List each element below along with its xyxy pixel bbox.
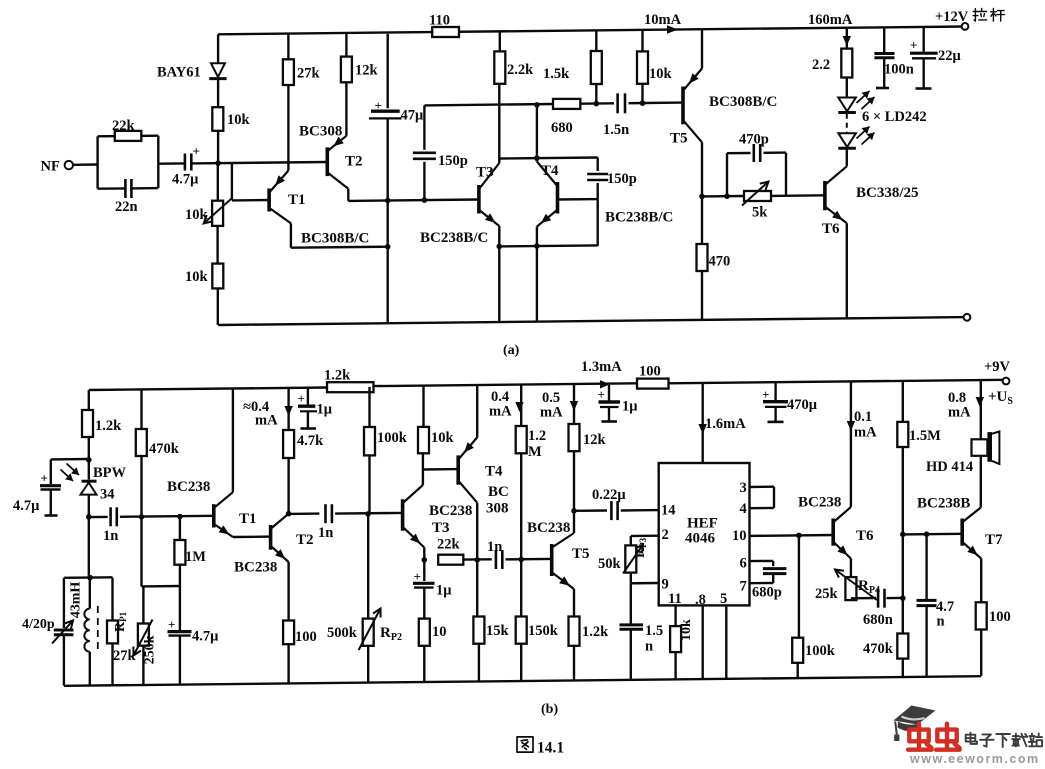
svg-text:680n: 680n — [863, 612, 893, 628]
svg-text:1.3mA: 1.3mA — [581, 359, 622, 375]
resistor 10 — [419, 619, 430, 646]
transistor T3b BC238 npn — [401, 499, 405, 530]
resistor 100k — [364, 427, 375, 455]
capacitor 22n — [124, 179, 127, 198]
resistor 22k horizontal — [438, 555, 463, 565]
svg-text:14.1: 14.1 — [537, 740, 564, 757]
svg-text:1.5n: 1.5n — [603, 122, 629, 138]
wire 100k branch down — [798, 535, 800, 637]
svg-text:250k: 250k — [143, 635, 158, 664]
input network box 22k/22n loop — [96, 136, 98, 188]
svg-text:10: 10 — [432, 624, 447, 640]
wire T2 collector down — [347, 189, 349, 201]
junction T2b collector node — [286, 511, 292, 517]
capacitor 1u T3 emitter — [413, 582, 435, 585]
junction 22k row T4 — [474, 557, 480, 563]
diode BAY61 — [211, 63, 225, 77]
wire rail to 12k with 0.5mA arrow — [573, 385, 575, 424]
svg-text:27k: 27k — [113, 648, 137, 664]
capacitor 680n — [877, 589, 880, 608]
junction 1n wire — [86, 514, 92, 520]
junction 100k b2 — [796, 533, 802, 539]
svg-text:1.5k: 1.5k — [543, 66, 570, 82]
svg-text:www.eeworm.com: www.eeworm.com — [909, 752, 1040, 764]
svg-text:150p: 150p — [438, 153, 468, 169]
junction 22k row start — [422, 557, 428, 563]
trimmer capacitor 4/20p — [54, 629, 74, 632]
wire emitter coupling row — [499, 245, 597, 246]
wire T1 collector down — [290, 223, 292, 247]
resistor 10k b — [418, 427, 429, 453]
wire 4.7u to T2 base — [191, 162, 327, 163]
junction T7 base — [900, 532, 906, 538]
svg-text:+: + — [414, 569, 421, 584]
wire rail to 1.5M — [902, 381, 904, 422]
svg-text:1n: 1n — [318, 525, 333, 541]
svg-text:110: 110 — [429, 13, 450, 29]
svg-text:680: 680 — [551, 120, 573, 136]
resistor 1.2k left — [82, 410, 93, 437]
wire 27k to T1 emitter — [287, 85, 289, 171]
svg-text:1.2k: 1.2k — [582, 624, 609, 640]
transistor T1b BC238 npn — [212, 504, 216, 527]
svg-text:T1: T1 — [288, 192, 306, 208]
wire T7 base node down — [902, 534, 904, 598]
svg-text:5k: 5k — [752, 205, 768, 221]
wire rail to 4.7k with 0.4mA arrow — [287, 388, 289, 430]
svg-text:22k: 22k — [437, 537, 461, 553]
svg-text:mA: mA — [489, 404, 512, 420]
wire down to 470k b2 — [902, 598, 904, 633]
svg-text:1μ: 1μ — [317, 402, 333, 418]
transistor T5 BC308 pnp — [681, 87, 685, 125]
wire 500k to bottom rail — [367, 646, 369, 683]
wire cross link to 1M bottom — [142, 585, 180, 588]
wire BAY61 to 10k — [217, 79, 219, 108]
wire 100k to junction — [368, 455, 370, 514]
svg-text:100: 100 — [639, 364, 661, 380]
wire rail down with 160mA arrow — [846, 28, 848, 49]
terminal +12V — [962, 23, 969, 30]
wire 100 T7 to bottom rail — [980, 630, 982, 677]
wire 4.7k to T2b collector — [287, 458, 289, 514]
resistor 4.7k — [283, 430, 294, 458]
wire T2b collector to 1n2 — [289, 512, 320, 515]
junction 680n node — [900, 595, 906, 601]
svg-text:T2: T2 — [345, 154, 363, 170]
wire LED2 to T6 collector — [846, 148, 848, 166]
svg-text:1.2: 1.2 — [528, 428, 546, 444]
potentiometer 50k Rp3 — [625, 545, 636, 572]
svg-text:100: 100 — [295, 629, 317, 645]
resistor 100 T7 — [976, 602, 987, 629]
svg-text:mA: mA — [948, 405, 971, 421]
wire 680p to pin7 — [772, 574, 774, 584]
wire rail to IC top 1.6mA — [702, 383, 704, 463]
svg-text:1n: 1n — [103, 528, 118, 544]
wire T1b emitter to T2b base — [233, 535, 271, 538]
wire 47u down to bottom rail — [387, 118, 389, 323]
wire 470k node down — [140, 517, 142, 587]
wire T5 collector to 470 — [701, 196, 703, 244]
svg-text:M: M — [528, 444, 542, 460]
wire 1M branch — [179, 517, 181, 541]
svg-text:100k: 100k — [377, 430, 408, 446]
svg-text:100: 100 — [989, 609, 1011, 625]
svg-text:4046: 4046 — [685, 531, 716, 547]
capacitor 150p first — [413, 152, 436, 155]
capacitor 0.22u — [610, 501, 613, 520]
capacitor 4.7u second — [168, 630, 192, 633]
wire T3 emitter down — [498, 226, 500, 322]
wire rail to 1.5k — [595, 30, 597, 51]
svg-text:+: + — [298, 391, 305, 406]
watermark site name text — [966, 733, 977, 744]
svg-text:4: 4 — [740, 501, 747, 517]
wire pin6 to 680p — [750, 560, 774, 563]
resistor 10k third — [637, 51, 648, 83]
junction T5 collector node — [699, 194, 705, 200]
junction 4.7n — [924, 531, 930, 537]
junction NF/BAY61 line — [215, 160, 221, 166]
svg-text:34: 34 — [100, 487, 115, 503]
wire NF node down to T1 base — [231, 163, 233, 200]
svg-text:T1: T1 — [239, 511, 257, 527]
wire 680/1.5n row — [424, 104, 553, 105]
wire 25k to 680n — [851, 597, 876, 600]
svg-text:0.22μ: 0.22μ — [592, 487, 626, 503]
transistor T1 BC308 pnp — [267, 189, 271, 212]
svg-text:BC238B/C: BC238B/C — [605, 210, 673, 226]
wire 4.7n to bottom rail — [925, 606, 927, 677]
capacitor 4.7n — [917, 599, 937, 602]
svg-text:mA: mA — [854, 425, 877, 441]
circuit (b) top +9V rail left segment — [89, 388, 327, 391]
wire rail to 10k b — [422, 386, 424, 427]
svg-text:150k: 150k — [528, 623, 559, 639]
wire rail to 27k — [287, 34, 289, 60]
svg-text:(b): (b) — [541, 702, 558, 717]
circuit (a) bottom rail — [218, 317, 967, 325]
resistor 2.2k — [494, 51, 505, 83]
svg-text:1μ: 1μ — [436, 583, 452, 599]
svg-text:(a): (a) — [503, 343, 520, 358]
svg-text:150p: 150p — [607, 171, 637, 187]
resistor 10k rotated label — [670, 626, 681, 652]
current arrow 1.3mA — [600, 380, 610, 388]
photodiode BPW34 — [82, 480, 97, 483]
junction 10k — [640, 100, 646, 106]
wire 10 to bottom rail — [423, 646, 425, 682]
svg-text:160mA: 160mA — [808, 12, 853, 28]
wire 470p loop left — [726, 153, 728, 196]
resistor 10k (top) — [212, 107, 223, 131]
wire node to T4b base — [423, 468, 458, 471]
wire pin10 to T6b base — [750, 534, 834, 537]
resistor Rp1 27k — [107, 621, 118, 644]
wire 680n to 470k line — [887, 597, 903, 600]
svg-text:+: + — [375, 98, 382, 113]
svg-text:2: 2 — [662, 527, 669, 543]
potentiometer 5k horizontal — [744, 191, 771, 201]
svg-text:BC238: BC238 — [527, 520, 570, 536]
wire 1.5k down — [595, 84, 597, 104]
capacitor 1u rail stub 2 — [608, 384, 610, 401]
wire T1 collector row — [291, 247, 388, 248]
watermark red text chongchong — [908, 724, 932, 750]
wire pin9 node to 1.5n — [630, 583, 632, 623]
wire junction to 500k pot — [367, 514, 369, 619]
capacitor 1n second — [324, 504, 327, 523]
svg-text:T5: T5 — [572, 546, 590, 562]
wire 680 to 1.5n — [580, 102, 614, 105]
resistor 110 on rail — [432, 27, 459, 37]
svg-text:308: 308 — [486, 501, 509, 517]
svg-text:11: 11 — [668, 591, 682, 607]
wire T2b emitter down — [287, 562, 289, 621]
resistor 470k b2 — [897, 634, 908, 659]
junction 470k line — [139, 514, 145, 520]
svg-text:1.2k: 1.2k — [324, 368, 351, 384]
wire rail to 22u — [923, 27, 925, 52]
wire T4 line to 15k — [476, 560, 478, 617]
terminal bottom right (a) — [964, 314, 971, 321]
svg-text:T4: T4 — [485, 464, 503, 480]
svg-text:0.1: 0.1 — [854, 409, 872, 425]
rail segment to +9V terminal — [669, 380, 1007, 384]
svg-text:T5: T5 — [670, 131, 688, 147]
wire 50k to pin9 row — [630, 573, 632, 584]
transistor T3 npn — [477, 185, 481, 214]
svg-text:2.2k: 2.2k — [507, 62, 534, 78]
junction T3 emitter row — [497, 244, 503, 250]
svg-text:4.7μ: 4.7μ — [192, 629, 219, 645]
svg-text:NF: NF — [41, 159, 60, 175]
circuit (a) top +12V rail — [218, 27, 965, 35]
wire T4 collector up to 680 row — [536, 104, 538, 161]
transistor T4 npn mirrored — [556, 182, 560, 214]
wire 150p-2 branch — [597, 157, 599, 171]
svg-text:22μ: 22μ — [938, 48, 962, 64]
rail segment to 100 resistor — [374, 383, 638, 386]
wire speaker to T7 collector — [980, 456, 982, 508]
svg-text:T6: T6 — [856, 528, 874, 544]
wire T2 collector to T3 base — [348, 200, 479, 201]
svg-text:1.5: 1.5 — [645, 623, 663, 639]
svg-text:1M: 1M — [185, 549, 206, 565]
wire T7 base wire — [903, 533, 962, 536]
svg-text:.8: .8 — [695, 592, 706, 608]
wire rail to 100k — [368, 387, 370, 427]
label 拉杆 (chinese) — [973, 8, 987, 21]
svg-text:BC338/25: BC338/25 — [856, 185, 919, 201]
resistor 100 on rail — [637, 379, 669, 389]
capacitor 1n first — [109, 507, 112, 526]
svg-text:14: 14 — [661, 503, 676, 519]
resistor 100 T2b — [283, 621, 294, 645]
wire tank right leg — [111, 578, 113, 621]
svg-text:4/20p: 4/20p — [22, 617, 55, 632]
capacitor 680p — [763, 567, 787, 570]
transistor T6 BC338 npn — [823, 181, 827, 210]
transistor T2 BC308 pnp — [325, 147, 329, 176]
wire photodiode to 1n node — [88, 495, 90, 578]
potentiometer 250k — [142, 586, 144, 623]
wire 1u to 10 resistor — [423, 588, 425, 619]
wire T5 emitter to rail — [701, 29, 703, 69]
junction 4.7u branch — [86, 457, 92, 463]
resistor 470 — [697, 244, 708, 271]
resistor 150k — [516, 617, 527, 644]
resistor 10k (bottom) — [212, 264, 223, 289]
resistor 1.2k on rail — [327, 382, 374, 392]
svg-text:4.7μ: 4.7μ — [13, 498, 40, 514]
wire 150p to base row — [423, 162, 425, 200]
wire T3/T4 collector link — [499, 158, 597, 159]
wire 10k to T3b collector node — [422, 453, 424, 485]
wire 100 to bottom rail — [287, 644, 289, 683]
wire 470k to 1n wire — [140, 456, 142, 517]
wire 1.2k to photodiode — [88, 437, 90, 480]
svg-text:T3: T3 — [476, 165, 494, 181]
svg-text:mA: mA — [540, 405, 563, 421]
LED D1 LD242 — [838, 98, 856, 112]
resistor 100k b2 — [792, 638, 803, 663]
wire 470p loop top left — [727, 152, 751, 155]
svg-text:47μ: 47μ — [401, 108, 425, 124]
svg-text:12k: 12k — [583, 432, 607, 448]
wire rail to 10k(a3) — [641, 30, 643, 52]
wire rail down left 1.2k — [88, 390, 90, 410]
svg-text:680p: 680p — [752, 585, 782, 601]
svg-text:HEF: HEF — [687, 516, 718, 532]
wire T6 emitter to bottom rail — [846, 223, 848, 317]
svg-text:15k: 15k — [486, 623, 510, 639]
svg-text:470p: 470p — [739, 132, 769, 148]
wire pin9 to 50k — [631, 582, 659, 585]
capacitor 4.7u electrolytic left — [40, 484, 61, 487]
wire 10k down — [641, 84, 643, 103]
svg-text:6: 6 — [740, 556, 747, 572]
wire 12k to T2 emitter — [345, 82, 347, 136]
wire T5b emitter down — [573, 589, 575, 617]
wire 0.22u to pin14 — [621, 509, 659, 512]
junction 1.2M/150k — [518, 557, 524, 563]
wire NF node to 10k pot — [217, 163, 219, 201]
wire T4 base to 150p line — [559, 198, 598, 201]
wire 250k to bottom rail — [142, 646, 144, 685]
resistor 1.5M — [897, 422, 908, 447]
wire 50k branch — [630, 536, 632, 545]
svg-text:+12V: +12V — [935, 9, 969, 25]
wire pin3-4 loop — [750, 486, 775, 489]
LED D2 LD242 — [838, 133, 856, 147]
wire T4b emitter(up) to rail — [476, 386, 478, 438]
svg-text:+: + — [762, 387, 769, 402]
svg-text:BC238: BC238 — [798, 495, 841, 511]
wire to 1n cap — [89, 516, 108, 519]
svg-text:BC308B/C: BC308B/C — [709, 94, 777, 110]
wire rail to 2.2k/T3 — [499, 31, 501, 51]
svg-text:BC238B: BC238B — [917, 496, 970, 512]
wire 10k to bottom rail — [674, 652, 676, 679]
capacitor 4.7u input electrolytic — [184, 154, 187, 171]
wire 2.2 to LED1 — [846, 78, 848, 98]
svg-text:100n: 100n — [884, 62, 914, 78]
svg-text:1.6mA: 1.6mA — [705, 416, 746, 432]
wire junction to 150k — [520, 560, 522, 617]
svg-text:22k: 22k — [112, 118, 136, 134]
svg-text:n: n — [645, 639, 653, 655]
wire 470k b2 to bottom rail — [902, 659, 904, 677]
svg-text:T2: T2 — [296, 532, 314, 548]
svg-text:7: 7 — [740, 579, 747, 595]
svg-text:1.2k: 1.2k — [95, 418, 122, 434]
wire 10k to NF node — [217, 131, 219, 163]
svg-text:470μ: 470μ — [787, 397, 818, 413]
wire to T1 base — [232, 199, 269, 202]
wire rail to 1.2M with 0.4mA arrow — [520, 385, 522, 426]
svg-text:10mA: 10mA — [644, 12, 682, 28]
wire 1.5n to T5 base — [629, 101, 682, 104]
svg-text:10k: 10k — [649, 66, 673, 82]
resistor 1.5k — [591, 51, 602, 84]
svg-text:27k: 27k — [297, 66, 321, 82]
resistor 1.2M — [516, 426, 527, 453]
watermark mortarboard logo — [894, 706, 936, 725]
junction 47u line — [385, 198, 391, 204]
resistor 2.2 — [841, 49, 852, 78]
wire 1M to 4.7u — [179, 565, 181, 630]
capacitor 22u electrolytic — [910, 52, 938, 55]
svg-text:BC238: BC238 — [429, 503, 472, 519]
capacitor 1.5n b — [620, 623, 644, 626]
wire 150p-1 branch top — [423, 105, 425, 149]
resistor 22k — [115, 131, 142, 141]
resistor 470k — [136, 429, 147, 456]
wire pin2 to 50k — [631, 535, 659, 538]
resistor 12k — [341, 57, 352, 83]
wire 1n2 to T3b base — [335, 512, 403, 515]
wire 22k to 1n3 — [463, 558, 492, 561]
svg-text:6 × LD242: 6 × LD242 — [862, 109, 927, 125]
wire 470 to bottom rail — [701, 271, 703, 320]
svg-text:+: + — [598, 387, 605, 402]
core dashed line — [97, 606, 99, 654]
svg-text:43mH: 43mH — [69, 582, 84, 619]
wire T4b collector down — [476, 503, 478, 560]
wire 10k to bottom rail — [217, 288, 219, 325]
capacitor 1n third — [495, 550, 498, 569]
svg-text:12k: 12k — [355, 63, 379, 79]
svg-text:1n: 1n — [487, 539, 502, 555]
svg-text:50k: 50k — [598, 556, 622, 572]
svg-text:T6: T6 — [822, 221, 840, 237]
svg-text:BAY61: BAY61 — [157, 65, 201, 81]
resistor 12k — [569, 424, 580, 451]
wire 150k to bottom rail — [520, 644, 522, 681]
transistor T4b BC308 pnp — [456, 455, 460, 484]
svg-text:BPW: BPW — [93, 465, 127, 481]
resistor 680 horizontal — [553, 99, 580, 109]
svg-text:470: 470 — [709, 254, 731, 270]
terminal +9V — [1003, 378, 1010, 385]
capacitor 150p second — [587, 173, 608, 176]
capacitor 1u rail stub — [307, 388, 309, 405]
junction 150p line — [422, 197, 428, 203]
svg-text:2.2: 2.2 — [812, 57, 830, 73]
svg-text:10k: 10k — [185, 207, 209, 223]
